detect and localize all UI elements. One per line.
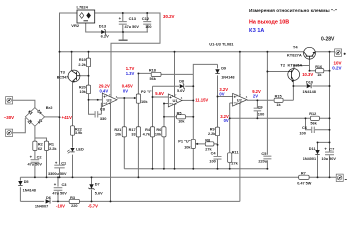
svg-text:100: 100 [145, 25, 151, 29]
wire P2 bottom to R17 to main rail [137, 103, 139, 177]
svg-text:C6: C6 [302, 125, 308, 130]
svg-text:R17: R17 [129, 128, 136, 132]
svg-text:-5.7V: -5.7V [88, 204, 98, 209]
svg-text:D8: D8 [179, 80, 184, 84]
svg-text:27k: 27k [231, 161, 238, 165]
wire bridge plus output to +41V column [45, 116, 60, 118]
wire R19/R20 divider column [88, 52, 90, 100]
svg-text:R19: R19 [79, 58, 86, 62]
svg-text:100: 100 [209, 159, 216, 164]
wire D11 branch [318, 142, 330, 177]
svg-text:0.47 5W: 0.47 5W [297, 181, 312, 185]
svg-text:47u 50V: 47u 50V [52, 192, 67, 196]
wire D5 column at rail left end [19, 177, 21, 201]
svg-text:R3: R3 [70, 196, 75, 200]
svg-text:КЗ 1А: КЗ 1А [249, 28, 264, 34]
wire R16 horizontal [310, 70, 330, 72]
svg-text:R7: R7 [301, 171, 306, 175]
input terminal 2 [6, 129, 13, 136]
resistor R5 10k (feedback) [177, 115, 186, 119]
zener D9 1N4148 [215, 69, 219, 73]
wire R18 left corner down to P2 top [138, 73, 151, 94]
wire R4 bottom [152, 137, 154, 169]
wire C9 column [256, 100, 258, 118]
zener D8 5.6V [180, 84, 184, 88]
resistor R16 1k [316, 69, 324, 73]
zener D13 6.2V [101, 30, 105, 34]
svg-text:-10V: -10V [56, 204, 65, 209]
svg-text:D9: D9 [221, 67, 226, 71]
resistor R6 10k [162, 127, 166, 137]
svg-text:D6: D6 [46, 196, 51, 200]
resistor R19 2.2k [86, 58, 90, 67]
wire input terminal 1 to bridge top [13, 100, 35, 108]
wire U3 output to P2 wiper [117, 97, 137, 99]
svg-text:C12: C12 [142, 16, 150, 21]
diode D10 1N4148 [307, 84, 311, 88]
wire C13 bottom lead down to chassis bar [122, 25, 124, 40]
svg-text:1N4148: 1N4148 [303, 90, 316, 94]
wire R2 to C2 to rail [34, 151, 36, 178]
capacitor C7 10u 50V [325, 152, 334, 155]
svg-text:R21: R21 [114, 128, 121, 132]
svg-text:C8: C8 [100, 107, 106, 112]
svg-text:D11: D11 [309, 147, 316, 151]
svg-text:P1 "U": P1 "U" [178, 139, 190, 144]
svg-text:C4: C4 [211, 151, 217, 156]
wire +V rail y51.7 (collector rail) [60, 51, 335, 53]
resistor R22 3.9k [70, 126, 74, 135]
resistor R18 56k [151, 72, 161, 76]
svg-text:3300u 50V: 3300u 50V [48, 172, 67, 176]
svg-text:10k: 10k [141, 99, 148, 104]
svg-text:1N4001: 1N4001 [303, 157, 316, 161]
wire U2 output to R15 [247, 99, 274, 101]
svg-text:R18: R18 [149, 68, 156, 72]
wire T3 base to divider [80, 75, 89, 77]
svg-text:2V: 2V [253, 93, 258, 98]
chassis ground bar for C13 [119, 39, 128, 41]
svg-text:0V: 0V [219, 92, 224, 97]
resistor R11 27k [228, 153, 232, 163]
wire feedback line from U2 minus to R12/C6 and output rail [230, 117, 330, 119]
capacitor C4 100 [214, 157, 222, 160]
wire main common rail to minus terminal [20, 176, 336, 178]
capacitor C1 3300u 50V [54, 165, 64, 168]
svg-text:0.2V: 0.2V [332, 66, 341, 71]
resistor R9 2.2k [215, 127, 219, 136]
wire C13 top lead [122, 13, 124, 21]
svg-text:0V: 0V [123, 89, 128, 94]
svg-text:KT815A: KT815A [288, 62, 303, 67]
input terminal 1 [6, 97, 13, 104]
wire R1 bottom to rail [46, 151, 48, 178]
wire P1 wiper to R8 [196, 143, 217, 145]
svg-text:U1-U3 TL081: U1-U3 TL081 [209, 41, 234, 46]
svg-text:30.2V: 30.2V [163, 14, 175, 19]
wire D9 column through zener down to U2 plus input [217, 64, 219, 96]
svg-text:5.6V: 5.6V [177, 89, 185, 93]
regulator VR2 L7824 [77, 10, 95, 23]
wire C12 bottom lead [146, 25, 148, 32]
svg-text:C2: C2 [37, 155, 43, 160]
wire R9 column to R8 node and C4 [217, 97, 219, 169]
svg-text:10k: 10k [155, 133, 162, 137]
svg-text:220: 220 [71, 204, 77, 208]
resistor R2 62 [33, 141, 37, 150]
transistor T2 KT815A [288, 69, 300, 81]
wire U2 V+ riser [239, 52, 241, 97]
op-amp U1 [168, 94, 182, 107]
svg-text:KT827A: KT827A [287, 52, 302, 57]
capacitor C13 47u 50V [119, 22, 127, 25]
svg-text:0-28V: 0-28V [321, 36, 335, 42]
wire T2 collector up and over to T4 base column [294, 66, 310, 69]
svg-text:100: 100 [299, 130, 306, 135]
capacitor C8 330 [95, 111, 98, 117]
svg-text:1N4007: 1N4007 [35, 205, 48, 209]
svg-text:+41V: +41V [62, 115, 72, 120]
resistor R4 4.7k [150, 127, 154, 137]
resistor R8 27k [205, 142, 214, 146]
svg-text:2.2k: 2.2k [78, 63, 86, 67]
wire U2 minus input column [230, 103, 233, 169]
capacitor C5 220u [263, 156, 271, 159]
svg-text:11.15V: 11.15V [195, 98, 208, 103]
svg-text:C3: C3 [62, 182, 68, 187]
svg-text:56k: 56k [310, 121, 317, 125]
svg-text:LED: LED [76, 148, 84, 152]
svg-text:D13: D13 [99, 24, 107, 29]
diode D6 1N4007 [46, 199, 50, 203]
wire T2 base column from rail down through C5 to bus [266, 52, 268, 169]
svg-text:56k: 56k [150, 77, 157, 81]
svg-text:0.4V: 0.4V [100, 89, 109, 94]
resistor R7 0.47 5W [299, 175, 309, 179]
capacitor C2 47u 50V [31, 160, 40, 163]
wire T2 emitter down to R15 line [284, 81, 294, 101]
svg-text:C13: C13 [129, 16, 137, 21]
resistor R1 2.2k [44, 141, 48, 150]
svg-text:5.6V: 5.6V [155, 91, 164, 96]
wire R22 to LED to rail [72, 135, 74, 177]
svg-text:5.6V: 5.6V [95, 192, 103, 196]
svg-text:2.2k: 2.2k [208, 132, 216, 136]
svg-text:R20: R20 [79, 85, 86, 89]
wire C6 branch [306, 118, 330, 130]
svg-text:R16: R16 [315, 65, 322, 69]
wire +41V column from bridge up to VR2 input [60, 13, 78, 117]
svg-text:0V: 0V [224, 118, 229, 123]
svg-text:10u 50V: 10u 50V [322, 157, 337, 161]
svg-text:R9: R9 [210, 127, 215, 131]
svg-text:10k: 10k [184, 145, 191, 150]
svg-text:T4: T4 [293, 44, 298, 49]
wire C12 top lead [146, 13, 148, 21]
resistor R17 33 [136, 127, 140, 137]
svg-text:R8: R8 [205, 139, 210, 143]
capacitor C12 100 [143, 22, 151, 25]
svg-text:На выходе 10В: На выходе 10В [249, 19, 289, 25]
wire feedback column D8 to P1 to bus [192, 86, 194, 169]
svg-text:62: 62 [38, 147, 42, 151]
svg-text:1N4148: 1N4148 [221, 76, 234, 80]
wire T3 emitter down to R22 [72, 81, 74, 126]
capacitor C6 100 [312, 127, 315, 133]
wire U3 V- down to negative rail [110, 103, 112, 202]
svg-text:C5: C5 [261, 151, 267, 156]
svg-text:1.3V: 1.3V [126, 71, 135, 76]
op-amp U3 [102, 93, 117, 106]
wire output + rail column [329, 52, 331, 178]
resistor R15 1k [274, 98, 283, 102]
potentiometer P1 "U" 10k [191, 139, 195, 148]
potentiometer P2 "I" 10k [136, 94, 140, 103]
svg-text:R11: R11 [232, 150, 239, 154]
wire R21 column [123, 98, 125, 169]
resistor R3 220 [69, 199, 79, 203]
wire U1 inverting input and R6 column [164, 104, 168, 169]
svg-text:R5: R5 [177, 111, 182, 115]
svg-text:10k: 10k [178, 120, 185, 124]
svg-text:10k: 10k [79, 90, 86, 94]
svg-text:47u 50V: 47u 50V [125, 25, 140, 29]
output terminal minus [336, 174, 343, 181]
svg-text:BC547: BC547 [57, 75, 68, 79]
svg-text:47u 50V: 47u 50V [28, 163, 43, 167]
transistor T3 BC547 [68, 70, 80, 82]
wire VR2 ground pin down and right through D13 [86, 23, 148, 32]
wire bridge minus down to R2/R1 [35, 126, 47, 141]
wire U2 V- down to negative rail [239, 103, 241, 201]
svg-text:R15: R15 [275, 95, 282, 99]
svg-text:R6: R6 [156, 128, 161, 132]
wire T3 collector riser [71, 52, 73, 71]
wire C3 column [57, 177, 59, 201]
svg-text:33: 33 [131, 133, 135, 137]
wire R18 right to tee [161, 73, 193, 75]
wire D8 horizontal: U1 plus elbow to feedback column [153, 85, 194, 87]
resistor R20 10k [86, 85, 90, 94]
wire VR2 output 30.2V to corner and down-left to U3 V+ [95, 13, 160, 97]
svg-text:10k: 10k [115, 133, 122, 137]
svg-text:10.3V: 10.3V [302, 72, 313, 77]
svg-text:VR2: VR2 [71, 23, 80, 28]
svg-text:Измерения относительно клеммы: Измерения относительно клеммы "-" [249, 8, 337, 14]
wire C1 column (on +41V column) [59, 117, 61, 177]
wire U3 non-inverting input from divider [89, 99, 103, 101]
wire R5 horizontal [164, 116, 193, 118]
svg-text:4.7k: 4.7k [143, 133, 151, 137]
svg-text:D7: D7 [95, 183, 100, 187]
svg-text:330: 330 [100, 116, 107, 121]
wire tee down to D8 node [192, 74, 194, 86]
capacitor C3 47u 50V [54, 188, 63, 191]
wire U1 output [182, 99, 193, 101]
svg-text:L7824: L7824 [77, 5, 89, 10]
svg-text:6.2V: 6.2V [101, 34, 110, 39]
svg-text:D10: D10 [306, 80, 313, 84]
wire U2 plus input [218, 96, 233, 98]
svg-text:C1: C1 [61, 161, 67, 166]
wire U1 V+ riser [174, 52, 176, 97]
svg-text:1N4148: 1N4148 [23, 189, 36, 193]
wire bottom bus (0V sense bus) [124, 168, 267, 170]
svg-text:220u: 220u [258, 159, 267, 164]
op-amp U2 [233, 93, 247, 106]
wire input terminal 2 to bridge left [13, 118, 26, 133]
svg-text:3.9k: 3.9k [75, 131, 83, 135]
wire tee up to D9 column [193, 64, 217, 74]
wire negative auxiliary rail [20, 200, 240, 202]
svg-text:C9: C9 [258, 105, 264, 110]
svg-text:T2: T2 [280, 62, 285, 67]
zener D7 5.6V [89, 184, 93, 188]
svg-text:R2: R2 [38, 142, 43, 146]
wire D10 horizontal emitter to output rail [293, 85, 329, 87]
wire U1 V- down to bus [174, 104, 176, 169]
junction dots [59, 51, 61, 53]
output terminal plus [335, 49, 342, 56]
resistor R12 56k [310, 116, 319, 120]
bridge rectifier Br2 [25, 108, 44, 127]
svg-text:2.2k: 2.2k [49, 147, 57, 151]
svg-text:P2 "I": P2 "I" [141, 89, 152, 94]
resistor R21 10k [122, 127, 126, 137]
diode D11 1N4001 [315, 150, 319, 154]
svg-text:~30V: ~30V [4, 115, 14, 120]
wire D7 column [91, 177, 93, 201]
svg-text:R12: R12 [309, 112, 316, 116]
wire U1 plus input elbow [153, 86, 169, 127]
svg-text:C7: C7 [329, 147, 334, 152]
svg-text:Br2: Br2 [46, 105, 53, 110]
LED indicator [70, 148, 74, 152]
svg-text:D5: D5 [24, 180, 29, 184]
capacitor C9 100 [254, 108, 262, 111]
svg-text:T3: T3 [60, 70, 65, 75]
diode D5 1N4148 [18, 181, 22, 185]
wire T2 base lead [267, 71, 287, 73]
svg-text:100: 100 [258, 112, 265, 117]
svg-text:R1: R1 [49, 142, 54, 146]
wire C8 branch: down, right through C8, up to U3 inverting input [89, 100, 103, 115]
transistor T4 KT827A [304, 47, 316, 59]
wire T4 base column [309, 59, 311, 71]
